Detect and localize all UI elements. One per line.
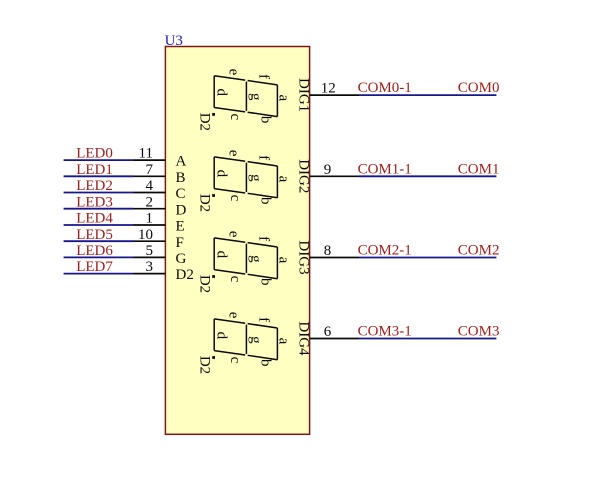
segment g (middle)	[245, 82, 247, 111]
svg-text:LED3: LED3	[76, 194, 113, 210]
segment f (top-right)	[248, 324, 278, 328]
decimal point dot of digit 3	[212, 275, 215, 278]
digit 1 seven-segment glyph	[214, 76, 277, 117]
pin 9 (DIG2)	[310, 175, 359, 177]
pin 8 (DIG3)	[310, 257, 359, 259]
wire net LED6	[64, 256, 134, 258]
svg-text:DIG3: DIG3	[295, 240, 311, 274]
svg-text:a: a	[275, 338, 291, 345]
segment a (right)	[276, 166, 278, 198]
svg-text:COM1: COM1	[458, 161, 500, 177]
svg-text:b: b	[258, 278, 274, 286]
svg-text:f: f	[256, 236, 272, 241]
wire net LED4	[64, 224, 134, 226]
svg-text:E: E	[176, 219, 185, 235]
svg-text:C: C	[176, 186, 186, 202]
svg-text:c: c	[227, 113, 243, 120]
svg-text:LED5: LED5	[76, 227, 113, 243]
svg-text:7: 7	[146, 162, 154, 178]
svg-text:D2: D2	[197, 275, 213, 293]
svg-text:D: D	[176, 202, 187, 218]
svg-text:D2: D2	[197, 113, 213, 131]
svg-text:e: e	[226, 150, 242, 157]
segment e (top-left)	[214, 238, 245, 242]
svg-text:B: B	[176, 170, 186, 186]
svg-text:U3: U3	[165, 33, 183, 49]
wire net COM0	[359, 94, 496, 96]
svg-text:LED1: LED1	[76, 162, 113, 178]
wire net COM3	[359, 338, 496, 340]
svg-text:d: d	[214, 89, 230, 97]
pin 6 (DIG4)	[310, 338, 359, 340]
segment b (bottom-right)	[248, 112, 278, 116]
decimal point dot of digit 1	[212, 113, 215, 116]
svg-text:LED7: LED7	[76, 259, 113, 275]
svg-text:a: a	[275, 94, 291, 101]
pin 11 (A)	[134, 159, 166, 161]
segment d (left)	[213, 76, 215, 108]
pin 2 (D)	[134, 208, 166, 210]
svg-text:d: d	[214, 251, 230, 259]
digit 3 seven-segment glyph	[214, 238, 277, 279]
svg-text:4: 4	[146, 178, 154, 194]
segment a (right)	[276, 85, 278, 117]
wire net LED5	[64, 240, 134, 242]
svg-text:8: 8	[324, 243, 332, 259]
svg-text:COM3: COM3	[458, 324, 500, 340]
svg-text:COM0: COM0	[458, 80, 500, 96]
wire net LED7	[64, 273, 134, 275]
pin 5 (G)	[134, 256, 166, 258]
segment f (top-right)	[248, 243, 278, 247]
svg-text:b: b	[258, 197, 274, 205]
svg-text:e: e	[226, 312, 242, 319]
svg-text:b: b	[258, 116, 274, 124]
wire net LED1	[64, 175, 134, 177]
segment a (right)	[276, 328, 278, 360]
svg-text:2: 2	[146, 194, 154, 210]
wire net COM2	[359, 257, 496, 259]
svg-text:d: d	[214, 170, 230, 178]
segment a (right)	[276, 247, 278, 279]
segment c (bottom-left)	[214, 189, 245, 193]
svg-text:COM2: COM2	[458, 243, 500, 259]
svg-text:11: 11	[139, 146, 153, 162]
svg-text:COM2-1: COM2-1	[358, 243, 412, 259]
svg-text:F: F	[176, 235, 184, 251]
svg-text:LED0: LED0	[76, 146, 113, 162]
decimal point dot of digit 2	[212, 194, 215, 197]
wire net LED3	[64, 208, 134, 210]
svg-text:DIG4: DIG4	[295, 321, 311, 356]
svg-text:A: A	[176, 154, 187, 170]
svg-text:g: g	[248, 174, 264, 182]
digit 2 seven-segment glyph	[214, 157, 277, 198]
pin 7 (B)	[134, 175, 166, 177]
svg-text:c: c	[227, 195, 243, 202]
svg-text:6: 6	[324, 324, 332, 340]
segment d (left)	[213, 157, 215, 189]
segment g (middle)	[245, 244, 247, 273]
svg-text:g: g	[248, 336, 264, 344]
svg-text:COM0-1: COM0-1	[358, 80, 412, 96]
svg-text:a: a	[275, 257, 291, 264]
svg-text:f: f	[256, 74, 272, 79]
segment c (bottom-left)	[214, 351, 245, 355]
svg-text:f: f	[256, 317, 272, 322]
pin 10 (F)	[134, 240, 166, 242]
component U3 body (4-digit 7-segment display)	[165, 47, 309, 435]
svg-text:G: G	[176, 251, 187, 267]
segment e (top-left)	[214, 319, 245, 323]
svg-text:DIG2: DIG2	[295, 159, 311, 193]
svg-text:3: 3	[146, 259, 154, 275]
segment d (left)	[213, 319, 215, 351]
svg-text:DIG1: DIG1	[295, 78, 311, 112]
svg-text:b: b	[258, 359, 274, 367]
wire net COM1	[359, 175, 496, 177]
segment b (bottom-right)	[248, 193, 278, 197]
segment d (left)	[213, 238, 215, 270]
pin 1 (E)	[134, 224, 166, 226]
svg-text:g: g	[248, 93, 264, 101]
svg-text:D2: D2	[176, 267, 194, 283]
svg-text:1: 1	[146, 211, 154, 227]
svg-text:12: 12	[321, 81, 336, 97]
svg-text:e: e	[226, 69, 242, 76]
segment f (top-right)	[248, 81, 278, 85]
svg-text:LED6: LED6	[76, 243, 113, 259]
pin 3 (D2)	[134, 273, 166, 275]
pin 12 (DIG1)	[310, 94, 359, 96]
decimal point dot of digit 4	[212, 356, 215, 359]
segment b (bottom-right)	[248, 355, 278, 359]
svg-text:9: 9	[324, 162, 332, 178]
svg-text:COM1-1: COM1-1	[358, 161, 412, 177]
segment g (middle)	[245, 163, 247, 192]
svg-text:g: g	[248, 255, 264, 263]
svg-text:COM3-1: COM3-1	[358, 324, 412, 340]
svg-text:D2: D2	[197, 194, 213, 212]
svg-text:c: c	[227, 357, 243, 364]
segment e (top-left)	[214, 76, 245, 80]
svg-text:e: e	[226, 231, 242, 238]
svg-text:a: a	[275, 176, 291, 183]
segment e (top-left)	[214, 157, 245, 161]
segment g (middle)	[245, 325, 247, 354]
svg-text:LED4: LED4	[76, 211, 113, 227]
segment f (top-right)	[248, 162, 278, 166]
segment c (bottom-left)	[214, 270, 245, 274]
svg-text:10: 10	[138, 227, 153, 243]
pin 4 (C)	[134, 192, 166, 194]
svg-text:d: d	[214, 332, 230, 340]
segment b (bottom-right)	[248, 274, 278, 278]
segment c (bottom-left)	[214, 108, 245, 112]
svg-text:5: 5	[146, 243, 154, 259]
wire net LED0	[64, 159, 134, 161]
wire net LED2	[64, 192, 134, 194]
svg-text:D2: D2	[197, 356, 213, 374]
svg-text:LED2: LED2	[76, 178, 113, 194]
svg-text:f: f	[256, 155, 272, 160]
svg-text:c: c	[227, 276, 243, 283]
digit 4 seven-segment glyph	[214, 319, 277, 360]
